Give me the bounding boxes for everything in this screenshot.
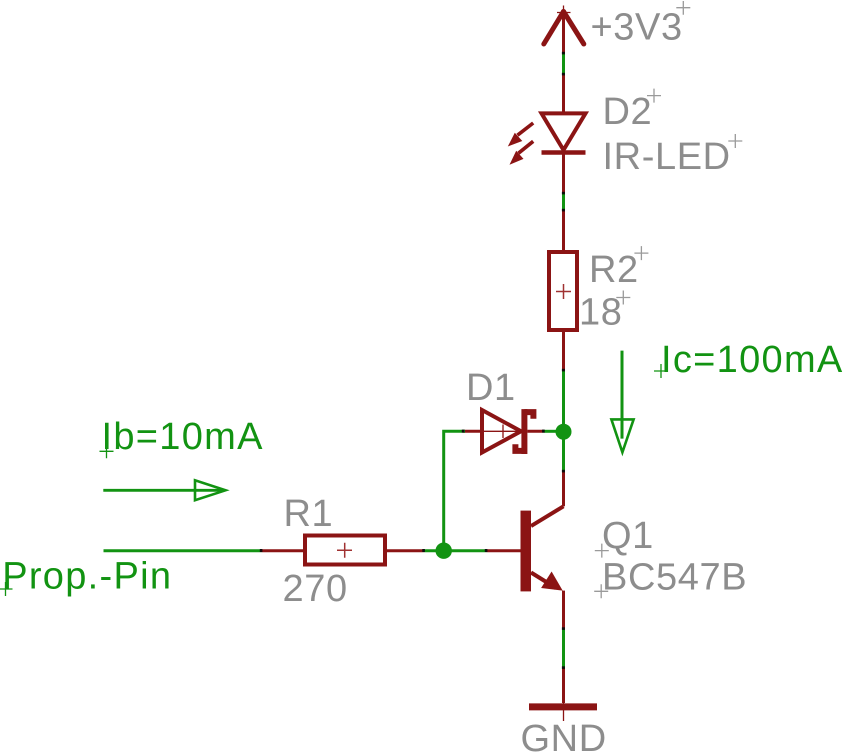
- svg-text:D1: D1: [466, 367, 516, 409]
- svg-text:+3V3: +3V3: [591, 7, 683, 49]
- svg-text:18: 18: [579, 292, 622, 334]
- svg-text:D2: D2: [603, 91, 653, 133]
- svg-text:Q1: Q1: [602, 515, 654, 557]
- svg-text:Ic=100mA: Ic=100mA: [661, 339, 844, 381]
- svg-text:IR-LED: IR-LED: [603, 136, 731, 178]
- svg-text:GND: GND: [521, 718, 607, 756]
- svg-text:R1: R1: [284, 493, 334, 535]
- svg-text:270: 270: [283, 568, 348, 610]
- svg-text:Prop.-Pin: Prop.-Pin: [2, 556, 172, 598]
- svg-text:Ib=10mA: Ib=10mA: [102, 416, 264, 458]
- svg-text:BC547B: BC547B: [602, 557, 747, 599]
- svg-text:R2: R2: [589, 249, 639, 291]
